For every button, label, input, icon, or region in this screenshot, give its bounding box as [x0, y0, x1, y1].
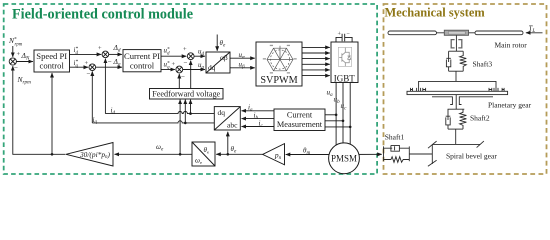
svg-text:+: + — [183, 46, 187, 53]
wire Speed PI out i*q to S3 — [70, 66, 89, 68]
Mechanical system dashed border — [384, 4, 547, 174]
svg-text:Measurement: Measurement — [277, 120, 323, 129]
svg-text:dq: dq — [208, 63, 216, 72]
shaft1 spring branch — [384, 157, 410, 163]
svg-text:dq: dq — [218, 108, 226, 117]
svg-text:id: id — [111, 107, 116, 116]
phase wire uc — [349, 83, 351, 151]
svg-text:Δd: Δd — [113, 43, 121, 54]
svg-text:u*d: u*d — [164, 47, 171, 57]
svg-text:+: + — [85, 60, 89, 67]
shaft3 spring — [460, 51, 467, 71]
wire S1 to Speed PI — [16, 61, 33, 63]
gain triangle 30/(pi*pn) — [66, 143, 113, 167]
summing junction S1 — [9, 51, 194, 73]
tap wire to current measurement b — [325, 120, 343, 122]
wire u_beta to SVPWM — [230, 67, 255, 69]
svg-text:uα: uα — [239, 51, 246, 61]
svg-text:αβ: αβ — [220, 53, 228, 62]
wire id from dq-abc with hops — [105, 112, 214, 114]
shaft1 damper branch — [384, 145, 410, 151]
wire theta_e up into dq-abc bottom — [227, 132, 229, 155]
wire omega into FF bottom — [179, 100, 181, 155]
wire FF up into S4 — [190, 61, 192, 89]
svg-text:abc: abc — [227, 121, 238, 130]
DC-link capacitor above IGBT — [336, 34, 352, 44]
svg-text:Speed PI: Speed PI — [36, 51, 67, 61]
block omega-theta — [192, 142, 215, 166]
svg-text:ub: ub — [334, 96, 341, 105]
phase wire ub — [342, 83, 344, 151]
svg-text:N*rpm: N*rpm — [8, 36, 23, 48]
shaft2 bottom bar — [448, 128, 463, 130]
shaft2 damper to bottom — [447, 125, 449, 129]
planetary top frame — [419, 81, 496, 91]
block Current PI control — [123, 50, 161, 72]
wire Current PI out u*q to S5 — [161, 69, 175, 71]
bevel gear hatch corner — [428, 141, 437, 148]
shaft1 left bar — [383, 146, 385, 161]
block Current Measurement — [274, 109, 325, 131]
wire ib to dq-abc — [242, 118, 275, 120]
wire speed feedback up into S1 — [13, 66, 66, 154]
bevel gear horizontal — [432, 143, 480, 145]
bevel gear vertical — [431, 144, 433, 164]
wire SVPWM-IGBT 4 — [302, 63, 330, 65]
junction dot omega to Speed PI — [51, 153, 54, 156]
coupling bracket left — [451, 40, 454, 48]
junction dot id-FF — [189, 112, 192, 115]
wire theta_e stub into dq-ab top — [216, 35, 218, 51]
PMSM motor circle — [329, 143, 360, 174]
svg-text:Shaft2: Shaft2 — [470, 114, 490, 123]
svg-text:uβ: uβ — [239, 61, 246, 71]
svg-text:+: + — [98, 45, 102, 52]
shaft2 damper — [446, 109, 451, 125]
svg-text:−: − — [87, 70, 91, 78]
svg-text:i*q: i*q — [74, 59, 79, 69]
svg-text:Field-oriented control module: Field-oriented control module — [12, 6, 193, 22]
svg-text:−: − — [108, 58, 112, 66]
shaft3 damper — [446, 51, 451, 67]
junction dot omega-FF — [179, 153, 182, 156]
wire ia to dq-abc — [242, 110, 275, 112]
junction dot tap b — [342, 120, 345, 123]
svg-text:ua: ua — [327, 89, 334, 98]
svg-text:θe: θe — [220, 39, 226, 49]
block Speed PI control — [34, 50, 70, 72]
wire iq into FF bottom — [184, 100, 186, 123]
planetary gear teeth right — [489, 88, 504, 91]
rotor blade left — [388, 31, 437, 35]
wire SVPWM-IGBT 2 — [302, 52, 330, 54]
wire S5 to dq-ab block uq — [183, 69, 205, 71]
svg-text:Current: Current — [287, 111, 313, 120]
wire SVPWM-IGBT 1 — [302, 46, 330, 48]
wire PMSM to Shaft1 — [344, 153, 382, 155]
block dq-abc — [214, 107, 240, 130]
wire S3 to Current PI — [96, 66, 122, 68]
svg-text:+: + — [338, 32, 342, 38]
svg-text:uc: uc — [341, 102, 348, 111]
wire Speed PI out i*d to S2 — [70, 53, 102, 55]
svg-text:Shaft1: Shaft1 — [385, 133, 405, 142]
wire SVPWM-IGBT 3 — [302, 58, 330, 60]
IGBT inner symbol — [338, 47, 351, 66]
shaft3 bottom bar — [449, 70, 464, 72]
SVPWM sector labels (tiny) — [263, 45, 297, 74]
shaft3 stem down — [455, 71, 457, 81]
shaft3 damper to bottom — [448, 67, 450, 71]
svg-text:Mechanical system: Mechanical system — [385, 6, 486, 20]
hub stem — [455, 35, 457, 51]
phase wire ua — [335, 83, 337, 151]
block Feedforward voltage — [150, 89, 224, 100]
svg-text:control: control — [40, 61, 65, 71]
wire N*rpm into summing junction S1 — [12, 46, 14, 57]
wire ic to dq-abc — [242, 126, 275, 128]
wire omega up into Speed PI bottom — [51, 73, 53, 154]
shaft2 spring — [460, 109, 467, 129]
wire S4 to dq-ab block ud — [194, 55, 205, 57]
planetary bar — [407, 91, 508, 94]
torque TL arrow — [526, 32, 543, 34]
block IGBT — [331, 42, 358, 83]
tap wire to current measurement a — [325, 114, 336, 116]
summing junction S5 — [176, 66, 183, 73]
svg-text:−: − — [184, 59, 188, 67]
tap wire to current measurement c — [325, 126, 350, 128]
svg-text:Spiral bevel gear: Spiral bevel gear — [446, 152, 497, 161]
svg-text:IGBT: IGBT — [334, 73, 355, 83]
svg-text:−: − — [181, 73, 185, 81]
bevel gear hatch bottom — [428, 160, 437, 166]
svg-text:ic: ic — [259, 120, 264, 129]
junction dot iq-FF — [184, 122, 187, 125]
block dq-alphabeta — [206, 52, 230, 73]
summing junction S2 — [102, 51, 109, 58]
wire omega_e from block to gain triangle — [115, 153, 193, 155]
rotor hub — [444, 30, 468, 35]
block SVPWM — [256, 42, 302, 86]
shaft2 stem to bevel — [455, 129, 457, 144]
wire u_alpha to SVPWM — [230, 57, 255, 59]
svg-text:−: − — [347, 32, 351, 38]
junction dot tap a — [335, 114, 338, 117]
svg-text:Feedforward voltage: Feedforward voltage — [152, 90, 220, 99]
planetary carrier arm right — [459, 97, 493, 105]
shaft2 top bar — [448, 108, 465, 110]
shaft3 top bar — [449, 50, 464, 52]
coupling bracket right — [458, 40, 462, 48]
summing junction S3 — [89, 64, 96, 71]
summing junction S4 — [187, 53, 194, 60]
wire S2 to Current PI — [109, 53, 122, 55]
FOC module dashed border — [4, 4, 377, 174]
svg-text:ωe: ωe — [156, 143, 164, 153]
wire iq from dq-abc with hop — [92, 121, 214, 123]
shaft1 output to bevel — [409, 153, 432, 155]
svg-text:Planetary gear: Planetary gear — [488, 101, 532, 110]
wire SVPWM-IGBT 6 — [302, 75, 330, 77]
planetary stem to shaft2 — [455, 95, 457, 110]
wire pn out theta_e to omega-theta block — [216, 153, 262, 155]
svg-text:Shaft3: Shaft3 — [473, 60, 493, 69]
SVPWM hexagon diagram — [267, 46, 293, 71]
rotor shaft connectors — [437, 32, 476, 34]
wire theta_m PMSM to pn triangle — [286, 154, 344, 156]
svg-text:PMSM: PMSM — [331, 153, 357, 163]
svg-text:ΔN: ΔN — [21, 51, 30, 62]
svg-text:ud: ud — [198, 48, 205, 58]
bevel gear hatch right — [477, 141, 484, 148]
junction dot theta_e branch — [227, 153, 230, 156]
svg-text:iq: iq — [93, 116, 98, 125]
rotor blade right — [475, 31, 523, 35]
wire FF up into S5 — [178, 74, 180, 89]
svg-text:θe: θe — [231, 145, 237, 155]
wire SVPWM-IGBT 5 — [302, 69, 330, 71]
wire id feedback up into S2 — [104, 59, 106, 114]
svg-text:+: + — [172, 61, 176, 68]
svg-text:−: − — [14, 64, 18, 72]
svg-text:Nrpm: Nrpm — [17, 75, 32, 86]
wire id into FF bottom — [190, 100, 192, 114]
wire Current PI out u*d to S4 — [161, 55, 186, 57]
svg-text:Current PI: Current PI — [124, 51, 160, 61]
junction dot tap c — [349, 126, 352, 129]
svg-text:Δq: Δq — [113, 57, 121, 68]
svg-text:ia: ia — [248, 104, 253, 113]
svg-text:+: + — [17, 51, 21, 58]
shaft1 right bar — [408, 146, 410, 161]
wire iq feedback up into S3 — [91, 71, 93, 123]
gain triangle pn — [263, 144, 285, 165]
svg-text:Main rotor: Main rotor — [495, 41, 528, 50]
svg-text:control: control — [130, 61, 155, 71]
planetary carrier arm left — [432, 97, 452, 105]
svg-text:SVPWM: SVPWM — [260, 75, 297, 86]
planetary gear teeth left — [411, 88, 426, 91]
